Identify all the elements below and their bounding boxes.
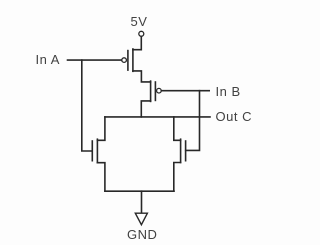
transistor Q2 PMOS gate bar	[154, 82, 156, 100]
wire In A branch down to Q3 gate	[82, 60, 92, 151]
transistor Q2 gate bubble	[157, 88, 162, 93]
svg-text:Out C: Out C	[216, 109, 252, 124]
wire In A to Q1 gate bubble	[68, 59, 122, 61]
wire output node down to Q3 drain	[97, 117, 105, 140]
wire ground rail	[105, 190, 174, 192]
svg-text:In B: In B	[216, 84, 241, 99]
wire In B branch down to Q4 gate	[186, 91, 200, 151]
wire output node Out C	[105, 116, 210, 118]
wire Q2 source down to output node	[141, 101, 150, 117]
transistor Q1 PMOS channel	[132, 49, 134, 71]
wire rail to GND symbol	[141, 191, 143, 212]
wire output node down to Q4 drain	[174, 117, 181, 140]
ground symbol triangle	[135, 213, 147, 225]
wire Q1 source to Q2 drain	[133, 71, 151, 82]
transistor Q4 NMOS channel (mirrored)	[180, 139, 182, 162]
transistor Q4 NMOS gate bar	[185, 141, 187, 161]
svg-text:GND: GND	[127, 227, 157, 242]
wire Q3 source down to ground rail	[97, 163, 105, 192]
wire 5V terminal to PMOS Q1 drain	[133, 37, 141, 50]
svg-text:In A: In A	[36, 52, 60, 67]
wire Q2 gate bubble to In B	[161, 90, 209, 92]
transistor Q1 gate bubble	[122, 58, 127, 63]
transistor Q1 PMOS gate bar	[127, 51, 129, 71]
transistor Q2 PMOS channel (mirrored)	[150, 81, 152, 101]
transistor Q3 NMOS channel	[96, 139, 98, 163]
transistor Q3 NMOS gate bar	[91, 141, 93, 161]
power terminal circle	[139, 31, 144, 36]
wire Q4 source down to ground rail	[174, 163, 181, 192]
svg-text:5V: 5V	[131, 14, 148, 29]
